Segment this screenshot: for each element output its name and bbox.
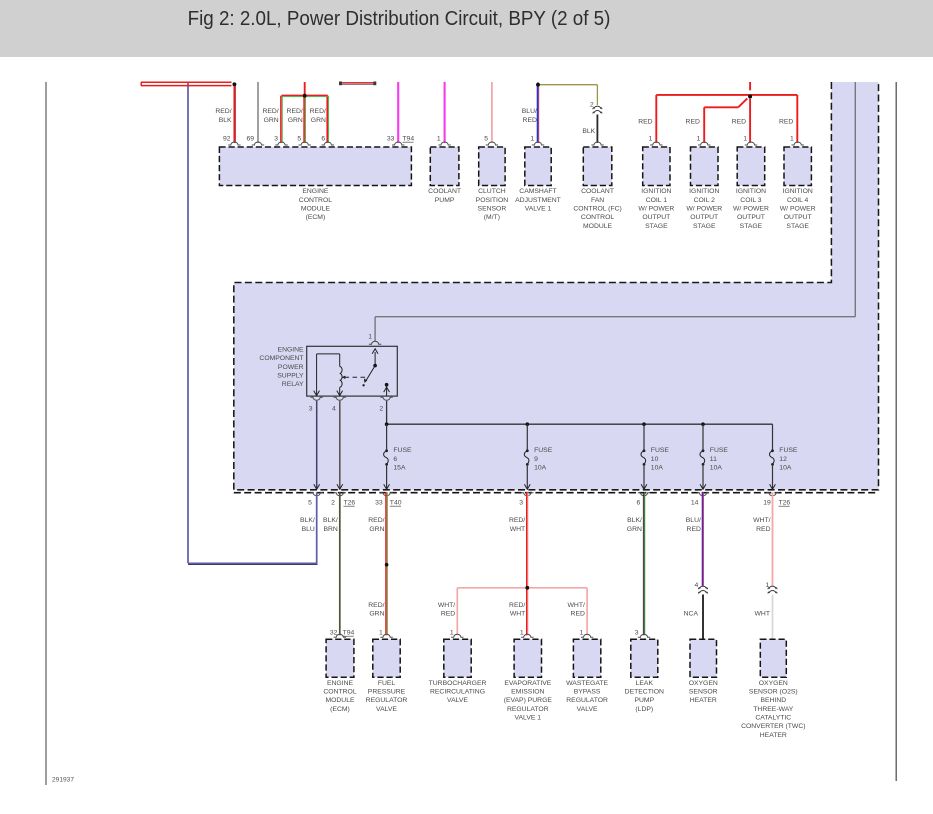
svg-text:FUSE: FUSE bbox=[534, 447, 553, 454]
svg-text:9: 9 bbox=[534, 456, 538, 463]
svg-text:RED: RED bbox=[571, 610, 585, 617]
svg-text:T94: T94 bbox=[402, 136, 414, 143]
svg-text:COMPONENT: COMPONENT bbox=[259, 355, 303, 362]
svg-text:BYPASS: BYPASS bbox=[574, 688, 601, 695]
svg-text:RED/: RED/ bbox=[509, 517, 525, 524]
svg-text:5: 5 bbox=[484, 136, 488, 143]
svg-text:W/ POWER: W/ POWER bbox=[686, 206, 722, 213]
svg-text:1: 1 bbox=[697, 136, 701, 143]
svg-text:OUTPUT: OUTPUT bbox=[737, 214, 765, 221]
svg-text:IGNITION: IGNITION bbox=[689, 188, 719, 195]
svg-text:6: 6 bbox=[321, 136, 325, 143]
svg-text:STAGE: STAGE bbox=[740, 223, 763, 230]
svg-text:3: 3 bbox=[274, 136, 278, 143]
svg-text:VALVE 1: VALVE 1 bbox=[525, 206, 552, 213]
svg-text:RED: RED bbox=[779, 118, 793, 125]
svg-text:CATALYTIC: CATALYTIC bbox=[755, 714, 791, 721]
svg-text:RED: RED bbox=[523, 117, 537, 124]
svg-text:BLK: BLK bbox=[219, 117, 232, 124]
svg-text:4: 4 bbox=[695, 582, 699, 589]
svg-text:BLU/: BLU/ bbox=[686, 517, 701, 524]
svg-text:SENSOR: SENSOR bbox=[478, 206, 507, 213]
svg-text:W/ POWER: W/ POWER bbox=[638, 206, 674, 213]
svg-text:FUEL: FUEL bbox=[378, 680, 396, 687]
svg-text:1: 1 bbox=[743, 136, 747, 143]
svg-text:OUTPUT: OUTPUT bbox=[642, 214, 670, 221]
svg-text:VALVE: VALVE bbox=[577, 706, 598, 713]
svg-text:(EVAP) PURGE: (EVAP) PURGE bbox=[504, 697, 553, 704]
svg-text:FUSE: FUSE bbox=[651, 447, 670, 454]
svg-text:EVAPORATIVE: EVAPORATIVE bbox=[504, 680, 551, 687]
svg-text:2: 2 bbox=[590, 101, 594, 108]
svg-text:T26: T26 bbox=[779, 500, 791, 507]
svg-text:SENSOR: SENSOR bbox=[689, 688, 718, 695]
svg-text:ADJUSTMENT: ADJUSTMENT bbox=[515, 197, 561, 204]
svg-text:(ECM): (ECM) bbox=[306, 214, 326, 221]
svg-text:BLU: BLU bbox=[302, 526, 315, 533]
svg-text:WHT: WHT bbox=[510, 526, 525, 533]
svg-text:BRN: BRN bbox=[323, 526, 337, 533]
svg-text:1: 1 bbox=[649, 136, 653, 143]
svg-text:FUSE: FUSE bbox=[393, 447, 412, 454]
svg-text:BLU/: BLU/ bbox=[522, 108, 537, 115]
svg-text:REGULATOR: REGULATOR bbox=[366, 697, 408, 704]
svg-text:RED: RED bbox=[732, 118, 746, 125]
svg-text:POSITION: POSITION bbox=[476, 197, 509, 204]
svg-text:RED/: RED/ bbox=[287, 108, 303, 115]
svg-text:RED/: RED/ bbox=[368, 602, 384, 609]
svg-text:GRN: GRN bbox=[311, 117, 326, 124]
svg-text:RECIRCULATING: RECIRCULATING bbox=[430, 688, 485, 695]
svg-text:291937: 291937 bbox=[52, 777, 74, 784]
svg-text:T26: T26 bbox=[344, 500, 356, 507]
svg-text:REGULATOR: REGULATOR bbox=[507, 706, 549, 713]
svg-text:GRN: GRN bbox=[369, 526, 384, 533]
svg-text:FUSE: FUSE bbox=[710, 447, 729, 454]
svg-text:1: 1 bbox=[580, 630, 584, 637]
svg-text:6: 6 bbox=[637, 500, 641, 507]
svg-text:SENSOR (O2S): SENSOR (O2S) bbox=[749, 688, 798, 695]
svg-text:IGNITION: IGNITION bbox=[736, 188, 766, 195]
svg-text:ENGINE: ENGINE bbox=[327, 680, 354, 687]
svg-text:12: 12 bbox=[779, 456, 787, 463]
svg-text:1: 1 bbox=[379, 630, 383, 637]
svg-text:19: 19 bbox=[763, 500, 771, 507]
svg-text:BEHIND: BEHIND bbox=[760, 697, 786, 704]
svg-text:COIL 1: COIL 1 bbox=[646, 197, 667, 204]
svg-text:MODULE: MODULE bbox=[301, 206, 331, 213]
svg-text:14: 14 bbox=[691, 500, 699, 507]
svg-text:RED: RED bbox=[756, 526, 770, 533]
svg-text:MODULE: MODULE bbox=[325, 697, 355, 704]
svg-text:COOLANT: COOLANT bbox=[581, 188, 614, 195]
svg-text:3: 3 bbox=[519, 500, 523, 507]
svg-text:REGULATOR: REGULATOR bbox=[566, 697, 608, 704]
svg-text:FUSE: FUSE bbox=[779, 447, 798, 454]
svg-text:CONTROL: CONTROL bbox=[299, 197, 332, 204]
svg-text:SUPPLY: SUPPLY bbox=[277, 372, 304, 379]
svg-text:TURBOCHARGER: TURBOCHARGER bbox=[429, 680, 487, 687]
svg-text:10A: 10A bbox=[534, 465, 547, 472]
svg-text:1: 1 bbox=[368, 334, 372, 341]
svg-text:RED/: RED/ bbox=[262, 108, 278, 115]
svg-text:IGNITION: IGNITION bbox=[783, 188, 813, 195]
svg-text:OXYGEN: OXYGEN bbox=[689, 680, 718, 687]
svg-text:33: 33 bbox=[387, 136, 395, 143]
svg-text:1: 1 bbox=[437, 136, 441, 143]
svg-text:RED/: RED/ bbox=[509, 602, 525, 609]
svg-text:EMISSION: EMISSION bbox=[511, 688, 544, 695]
svg-text:2: 2 bbox=[331, 500, 335, 507]
svg-text:PUMP: PUMP bbox=[435, 197, 455, 204]
svg-text:69: 69 bbox=[246, 136, 254, 143]
svg-text:CONTROL: CONTROL bbox=[581, 214, 614, 221]
svg-text:THREE-WAY: THREE-WAY bbox=[753, 706, 793, 713]
svg-text:RED/: RED/ bbox=[368, 517, 384, 524]
svg-text:WHT/: WHT/ bbox=[438, 602, 455, 609]
svg-text:6: 6 bbox=[393, 456, 397, 463]
svg-text:RED: RED bbox=[441, 610, 455, 617]
svg-text:RED: RED bbox=[686, 118, 700, 125]
svg-text:RELAY: RELAY bbox=[282, 381, 304, 388]
svg-text:GRN: GRN bbox=[288, 117, 303, 124]
svg-text:1: 1 bbox=[450, 630, 454, 637]
svg-text:1: 1 bbox=[766, 582, 770, 589]
svg-text:4: 4 bbox=[332, 405, 336, 412]
svg-text:VALVE: VALVE bbox=[376, 706, 397, 713]
svg-text:W/ POWER: W/ POWER bbox=[733, 206, 769, 213]
svg-text:32: 32 bbox=[330, 630, 338, 637]
svg-text:1: 1 bbox=[790, 136, 794, 143]
svg-text:T40: T40 bbox=[390, 500, 402, 507]
svg-text:10A: 10A bbox=[710, 465, 723, 472]
svg-text:33: 33 bbox=[375, 500, 383, 507]
svg-text:POWER: POWER bbox=[278, 364, 304, 371]
svg-text:ENGINE: ENGINE bbox=[302, 188, 329, 195]
svg-text:DETECTION: DETECTION bbox=[625, 688, 664, 695]
svg-text:RED/: RED/ bbox=[215, 108, 231, 115]
svg-text:GRN: GRN bbox=[264, 117, 279, 124]
svg-text:STAGE: STAGE bbox=[645, 223, 668, 230]
svg-text:STAGE: STAGE bbox=[693, 223, 716, 230]
svg-text:RED: RED bbox=[638, 118, 652, 125]
svg-text:T94: T94 bbox=[343, 630, 355, 637]
svg-text:WHT/: WHT/ bbox=[568, 602, 585, 609]
svg-text:92: 92 bbox=[223, 136, 231, 143]
svg-text:10A: 10A bbox=[779, 465, 792, 472]
svg-text:IGNITION: IGNITION bbox=[641, 188, 671, 195]
svg-text:CONVERTER (TWC): CONVERTER (TWC) bbox=[741, 723, 805, 730]
svg-text:HEATER: HEATER bbox=[690, 697, 717, 704]
svg-text:GRN: GRN bbox=[627, 526, 642, 533]
svg-text:10: 10 bbox=[651, 456, 659, 463]
svg-text:VALVE: VALVE bbox=[447, 697, 468, 704]
svg-text:CLUTCH: CLUTCH bbox=[478, 188, 506, 195]
svg-text:WHT: WHT bbox=[510, 610, 525, 617]
svg-text:(ECM): (ECM) bbox=[330, 706, 350, 713]
svg-text:WASTEGATE: WASTEGATE bbox=[566, 680, 608, 687]
svg-text:COIL 4: COIL 4 bbox=[787, 197, 808, 204]
svg-text:10A: 10A bbox=[651, 465, 664, 472]
svg-text:OUTPUT: OUTPUT bbox=[784, 214, 812, 221]
svg-text:3: 3 bbox=[635, 630, 639, 637]
svg-text:(M/T): (M/T) bbox=[484, 214, 500, 221]
svg-text:PUMP: PUMP bbox=[634, 697, 654, 704]
svg-text:1: 1 bbox=[530, 136, 534, 143]
svg-text:BLK: BLK bbox=[582, 128, 595, 135]
svg-text:PRESSURE: PRESSURE bbox=[368, 688, 406, 695]
svg-text:LEAK: LEAK bbox=[636, 680, 654, 687]
svg-text:5: 5 bbox=[308, 500, 312, 507]
svg-text:2: 2 bbox=[379, 405, 383, 412]
svg-text:11: 11 bbox=[710, 456, 717, 463]
svg-text:VALVE 1: VALVE 1 bbox=[515, 714, 542, 721]
svg-text:HEATER: HEATER bbox=[760, 732, 787, 739]
svg-text:CONTROL (FC): CONTROL (FC) bbox=[573, 206, 621, 213]
svg-text:RED/: RED/ bbox=[310, 108, 326, 115]
svg-text:15A: 15A bbox=[393, 465, 406, 472]
svg-text:3: 3 bbox=[309, 405, 313, 412]
svg-text:1: 1 bbox=[520, 630, 524, 637]
svg-text:OXYGEN: OXYGEN bbox=[759, 680, 788, 687]
svg-text:OUTPUT: OUTPUT bbox=[690, 214, 718, 221]
svg-text:BLK/: BLK/ bbox=[300, 517, 315, 524]
svg-text:FAN: FAN bbox=[591, 197, 604, 204]
svg-text:BLK/: BLK/ bbox=[323, 517, 338, 524]
svg-text:BLK/: BLK/ bbox=[627, 517, 642, 524]
svg-text:CAMSHAFT: CAMSHAFT bbox=[519, 188, 556, 195]
svg-text:(LDP): (LDP) bbox=[635, 706, 653, 713]
svg-text:MODULE: MODULE bbox=[583, 223, 613, 230]
svg-text:ENGINE: ENGINE bbox=[278, 347, 305, 354]
svg-text:CONTROL: CONTROL bbox=[323, 688, 356, 695]
svg-text:W/ POWER: W/ POWER bbox=[780, 206, 816, 213]
svg-text:RED: RED bbox=[687, 526, 701, 533]
svg-text:NCA: NCA bbox=[684, 610, 699, 617]
svg-text:COIL 2: COIL 2 bbox=[694, 197, 715, 204]
svg-text:5: 5 bbox=[297, 136, 301, 143]
svg-text:COOLANT: COOLANT bbox=[428, 188, 461, 195]
svg-text:COIL 3: COIL 3 bbox=[740, 197, 761, 204]
svg-text:STAGE: STAGE bbox=[786, 223, 809, 230]
svg-text:WHT: WHT bbox=[755, 610, 770, 617]
svg-text:WHT/: WHT/ bbox=[753, 517, 770, 524]
svg-text:GRN: GRN bbox=[369, 610, 384, 617]
